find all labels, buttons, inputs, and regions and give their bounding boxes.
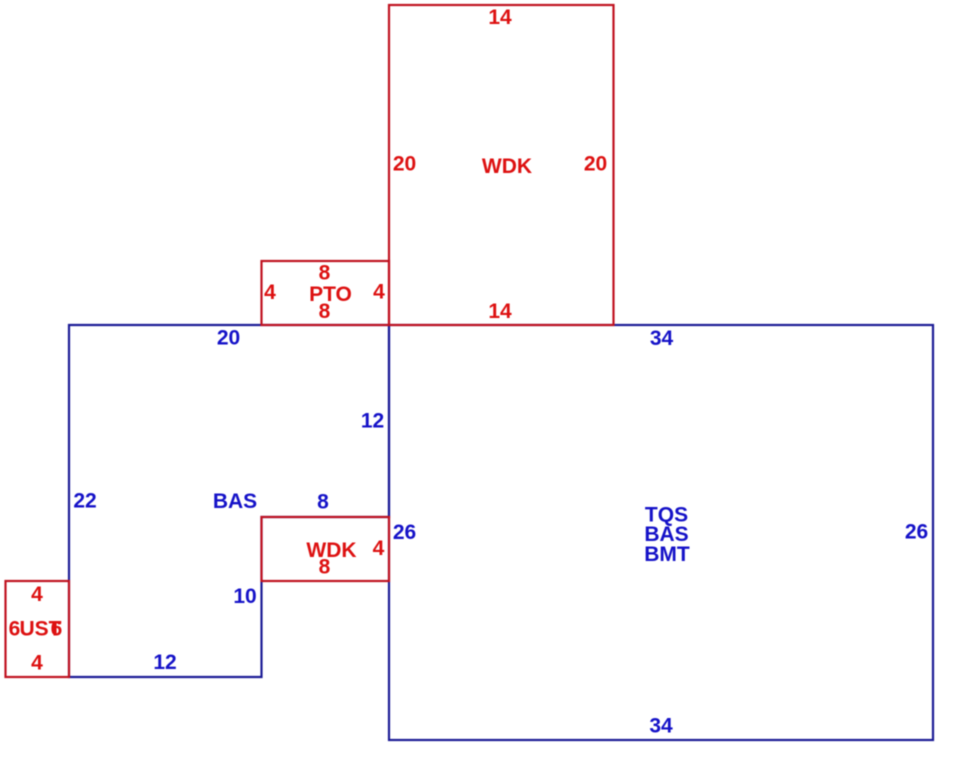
svg-text:BAS: BAS [213,490,257,513]
area UST outline (red rectangle, utility shed) [6,581,70,677]
svg-text:12: 12 [361,410,384,433]
svg-text:PTO: PTO [309,283,352,306]
svg-text:14: 14 [488,6,512,29]
svg-text:34: 34 [650,327,674,350]
area BAS outline (blue polygon, left section) [69,325,389,677]
svg-text:10: 10 [233,585,256,608]
svg-text:20: 20 [217,327,240,350]
svg-text:4: 4 [31,652,43,675]
svg-text:BMT: BMT [644,543,690,566]
svg-text:8: 8 [319,262,331,285]
svg-text:20: 20 [393,153,416,176]
area WDK outline (red rectangle, top wood deck) [389,5,614,325]
svg-text:WDK: WDK [482,155,532,178]
svg-text:4: 4 [373,281,385,304]
svg-text:8: 8 [319,556,331,579]
svg-text:4: 4 [264,281,276,304]
svg-text:12: 12 [153,651,176,674]
svg-text:8: 8 [319,300,331,323]
svg-text:4: 4 [31,583,43,606]
svg-text:WDK: WDK [306,539,356,562]
area TQS/BAS/BMT outline (blue rectangle, right section) [389,325,933,740]
svg-text:8: 8 [317,491,329,514]
svg-text:26: 26 [905,521,928,544]
svg-text:4: 4 [373,537,385,560]
svg-text:22: 22 [73,490,96,513]
svg-text:20: 20 [584,153,607,176]
svg-text:26: 26 [393,521,416,544]
svg-text:34: 34 [649,715,673,738]
svg-text:14: 14 [488,300,512,323]
area WDK outline (red rectangle, lower wood deck) [262,517,390,581]
area PTO outline (red rectangle, patio) [262,261,390,325]
svg-text:6: 6 [51,618,63,641]
